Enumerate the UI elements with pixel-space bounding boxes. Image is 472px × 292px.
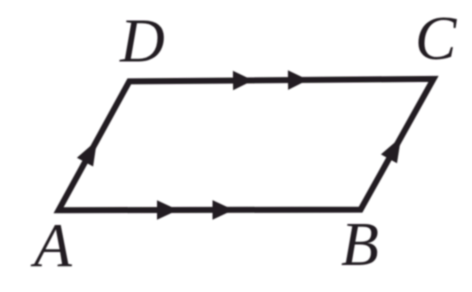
svg-text:A: A	[30, 213, 73, 281]
svg-text:C: C	[415, 5, 457, 73]
arrowhead 2 on side AB	[213, 200, 234, 220]
svg-text:B: B	[341, 211, 379, 279]
arrowhead on side BC	[381, 137, 401, 163]
parallelogram outline: sides AB, BC, CD, DA	[59, 79, 434, 210]
arrowhead 1 on side AB	[157, 200, 178, 220]
arrowhead on side AD	[77, 140, 97, 166]
svg-text:D: D	[119, 8, 165, 76]
arrowhead 2 on side DC	[288, 70, 308, 90]
arrowhead 1 on side DC	[233, 71, 253, 91]
